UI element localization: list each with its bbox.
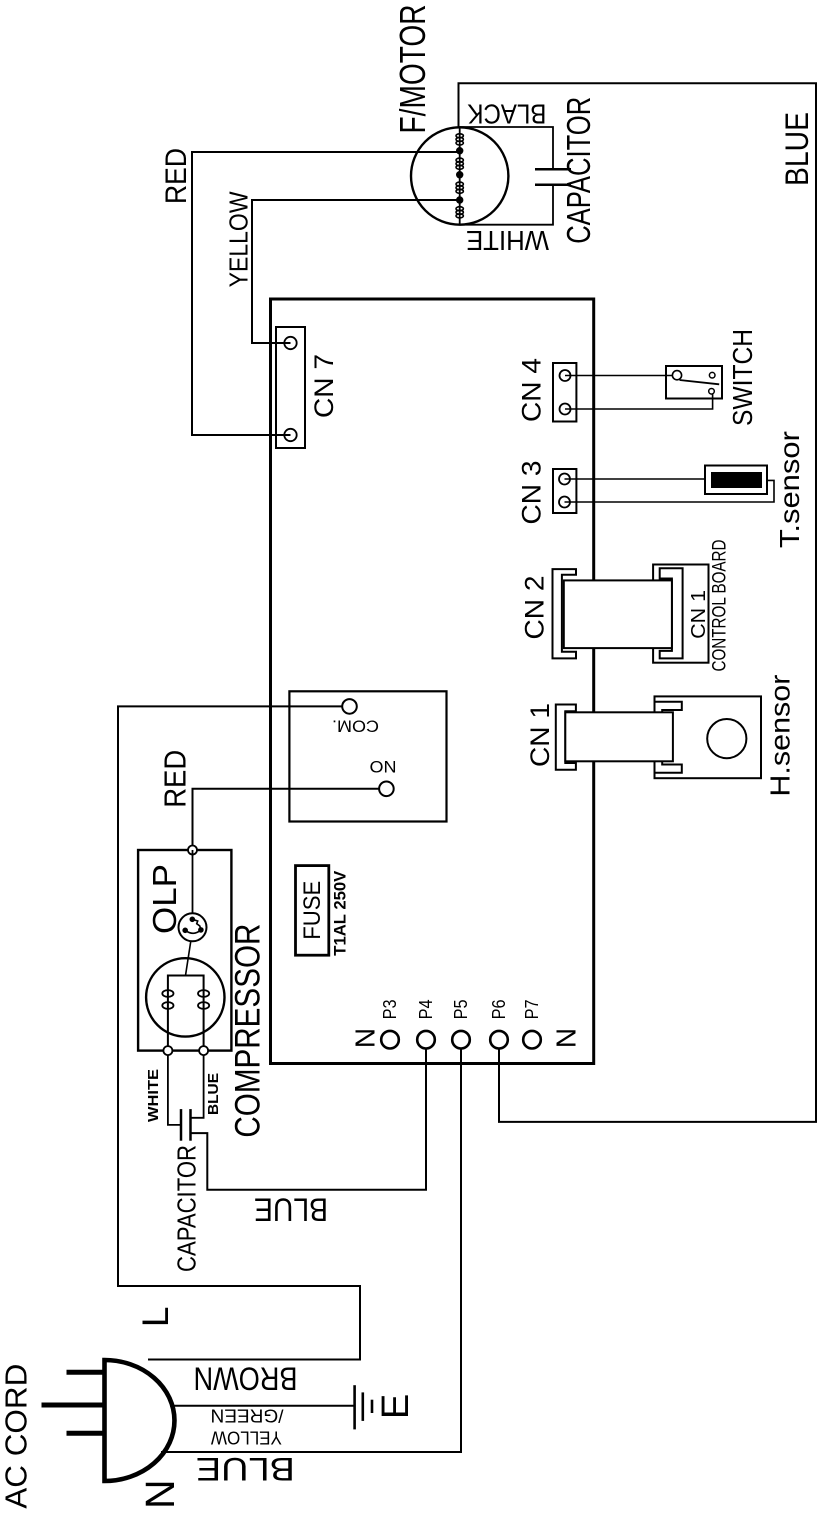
compressor terminal (top) — [188, 846, 197, 855]
svg-text:CONTROL BOARD: CONTROL BOARD — [709, 540, 730, 672]
compressor motor circle — [146, 958, 224, 1036]
wire BLUE (pin P6 to fan motor) — [459, 83, 817, 1122]
fan motor winding line — [459, 127, 461, 225]
pin P5 — [452, 1031, 470, 1049]
svg-text:H.sensor: H.sensor — [765, 675, 796, 797]
svg-text:L: L — [135, 1307, 176, 1328]
pin P4 — [417, 1031, 435, 1049]
svg-text:WHITE: WHITE — [145, 1069, 162, 1122]
svg-text:YELLOW: YELLOW — [211, 1427, 282, 1447]
wire terminal to OLP — [192, 850, 194, 914]
svg-text:CN 2: CN 2 — [520, 576, 550, 640]
wire BLACK (motor to capacitor) — [460, 127, 553, 169]
CN4 pin 2 — [560, 404, 571, 415]
fan motor tap node 3 — [456, 196, 463, 203]
fan motor tap node 1 — [456, 147, 463, 154]
svg-text:CN 1: CN 1 — [687, 590, 710, 639]
svg-text:E: E — [375, 1394, 417, 1419]
connector CN 4 — [553, 363, 576, 422]
relay box — [289, 691, 446, 821]
svg-text:N: N — [350, 1028, 381, 1048]
svg-text:N: N — [551, 1028, 582, 1048]
relay contact COM. — [342, 699, 357, 714]
wire YELLOW (fan motor to CN7) — [252, 200, 460, 343]
CN4 pin 1 — [560, 370, 571, 381]
wire CN3 pin2 to T.sensor — [565, 480, 775, 502]
fan motor (F/MOTOR) — [411, 127, 508, 224]
svg-text:P3: P3 — [380, 999, 400, 1019]
relay contact NO — [379, 782, 394, 797]
svg-text:AC CORD: AC CORD — [0, 1364, 34, 1509]
wire RED (fan motor to CN7) — [192, 152, 460, 435]
svg-text:FUSE: FUSE — [299, 881, 326, 940]
wire OLP to motor winding — [186, 941, 191, 975]
plug prong N — [67, 1431, 104, 1436]
svg-text:COMPRESSOR: COMPRESSOR — [229, 924, 268, 1138]
compressor terminal BLUE — [199, 1046, 208, 1055]
wire BROWN (L to relay COM.) — [118, 706, 360, 1359]
OLP overload protector — [179, 913, 207, 941]
capacitor C1 plate 2 — [189, 1109, 192, 1141]
wire CN4 pin1 to switch — [565, 375, 673, 377]
PCB main board outline — [271, 299, 594, 1064]
CN7 pin 1 — [284, 429, 296, 441]
AC plug (AC CORD) — [0, 1360, 174, 1509]
svg-text:SWITCH: SWITCH — [727, 329, 758, 426]
CN2 plug body — [564, 580, 672, 648]
CN7 pin 2 — [284, 337, 296, 349]
svg-text:T1AL 250V: T1AL 250V — [331, 870, 350, 956]
svg-text:CAPACITOR: CAPACITOR — [560, 97, 597, 244]
svg-text:NO: NO — [370, 757, 397, 776]
wire WHITE (motor to capacitor) — [460, 185, 553, 225]
capacitor C2 plate 2 — [535, 183, 571, 186]
pin P6 — [490, 1031, 508, 1049]
wire WHITE (terminal to capacitor) — [168, 1055, 181, 1125]
svg-text:CN 1: CN 1 — [525, 703, 555, 767]
H.sensor box — [655, 696, 762, 778]
svg-text:/GREEN: /GREEN — [211, 1406, 284, 1426]
fan motor tap node 2 — [456, 171, 463, 178]
fan motor winding coils — [456, 134, 463, 218]
plug prong E — [42, 1403, 104, 1408]
connector CN 3 — [553, 469, 576, 513]
svg-text:BLUE: BLUE — [254, 1192, 328, 1228]
wire RED (relay NO to compressor) — [193, 789, 380, 850]
svg-text:YELLOW: YELLOW — [224, 191, 254, 287]
wire CN3 pin1 to T.sensor — [565, 478, 706, 480]
control board rect — [653, 565, 708, 663]
svg-text:BLUE: BLUE — [779, 112, 815, 186]
svg-text:BROWN: BROWN — [194, 1361, 298, 1397]
svg-text:P6: P6 — [489, 999, 509, 1019]
control board CN 1 bracket — [660, 568, 683, 658]
fuse F1 — [296, 866, 329, 956]
svg-text:OLP: OLP — [146, 864, 183, 934]
compressor outline box — [138, 850, 231, 1051]
svg-text:P4: P4 — [416, 999, 436, 1019]
CN3 pin 1 — [559, 474, 570, 485]
svg-text:CAPACITOR: CAPACITOR — [172, 1145, 202, 1272]
connector CN 1 bracket — [556, 705, 576, 770]
switch S1 (SWITCH) — [666, 366, 722, 399]
compressor terminal WHITE — [163, 1046, 172, 1055]
svg-text:COM.: COM. — [332, 717, 379, 736]
svg-text:BLUE: BLUE — [205, 1073, 222, 1115]
plug prong L — [67, 1370, 104, 1375]
svg-text:T.sensor: T.sensor — [774, 431, 805, 548]
svg-text:RED: RED — [160, 148, 193, 204]
svg-text:WHITE: WHITE — [466, 225, 549, 256]
wire YELLOW/GREEN (E to ground) — [170, 1405, 354, 1407]
T.sensor element — [711, 472, 762, 488]
ground symbol E — [355, 1385, 372, 1429]
pin P3 — [381, 1031, 399, 1049]
svg-text:P7: P7 — [522, 999, 542, 1019]
capacitor C1 (compressor) plate 1 — [180, 1109, 183, 1141]
svg-text:CN 7: CN 7 — [309, 354, 339, 418]
compressor winding shape — [168, 976, 204, 1051]
connector CN 2 bracket — [553, 569, 577, 658]
svg-text:N: N — [137, 1479, 183, 1509]
wire BLUE (N to pin P5) — [161, 1048, 461, 1452]
H.sensor bracket — [655, 702, 682, 773]
wire CN4 pin2 to switch — [565, 393, 713, 409]
svg-text:P5: P5 — [451, 999, 471, 1019]
capacitor C2 (fan motor) plate 1 — [535, 168, 571, 171]
svg-text:CN 3: CN 3 — [517, 461, 547, 525]
wire BLUE (terminal to capacitor) — [191, 1055, 204, 1118]
svg-text:BLACK: BLACK — [467, 99, 546, 130]
T.sensor body — [705, 466, 767, 495]
wire BLUE (pin P4 to compressor capacitor) — [191, 1048, 427, 1190]
connector CN 7 — [276, 327, 305, 448]
svg-text:F/MOTOR: F/MOTOR — [392, 5, 433, 134]
svg-text:RED: RED — [158, 750, 193, 808]
pin P7 — [523, 1031, 541, 1049]
CN1 plug body — [565, 712, 673, 761]
H.sensor circle — [707, 719, 746, 758]
compressor winding coils — [162, 990, 209, 1009]
svg-text:CN 4: CN 4 — [517, 358, 547, 422]
svg-text:BLUE: BLUE — [196, 1451, 295, 1487]
CN3 pin 2 — [559, 497, 570, 508]
